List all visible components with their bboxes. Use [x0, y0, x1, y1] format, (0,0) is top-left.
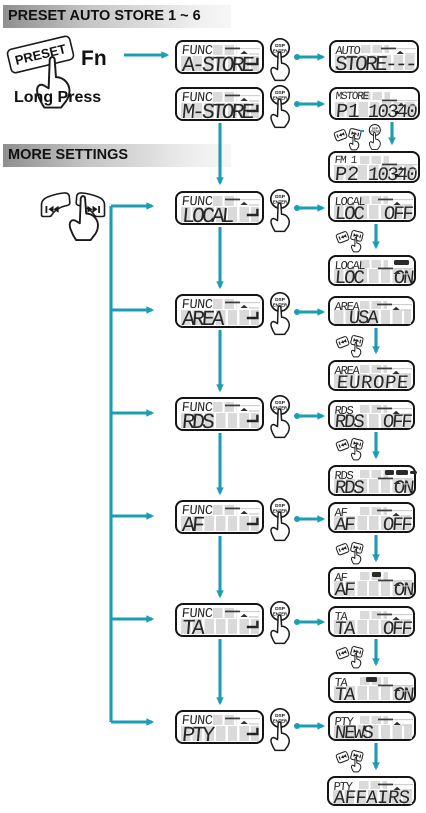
mini seek buttons hand (TA toggle)	[336, 646, 364, 668]
rail branch arrow to AF row	[111, 514, 152, 517]
rail branch arrow to LOCAL row	[111, 204, 152, 207]
dot arrow to right display (LOCAL row)	[294, 205, 300, 211]
mini seek buttons hand (AREA toggle)	[336, 335, 364, 357]
lcd FUNC AF	[175, 500, 264, 534]
DSP ENTER button hand for TA row	[271, 602, 289, 644]
DSP ENTER button hand for LOCAL row	[271, 190, 289, 232]
lcd AREA EUROPE	[328, 360, 415, 391]
DSP ENTER button hand for AREA row	[271, 293, 289, 335]
lcd AF AF ON	[328, 567, 416, 599]
rail branch arrow to AREA row	[111, 308, 152, 311]
arrow M-STORE to LOCAL	[218, 123, 221, 183]
lcd AUTO STORE	[329, 40, 419, 73]
mini seek buttons hand (PTY select)	[336, 750, 364, 772]
arrow LOC OFF to LOC ON	[374, 224, 377, 247]
arrow AF OFF to AF ON	[374, 535, 377, 560]
dot arrow to right display (M-STORE row)	[294, 101, 300, 107]
PRESET button with pressing hand	[7, 35, 75, 107]
arrow TA OFF to TA ON	[374, 639, 377, 664]
lcd PTY AFFAIRS	[327, 776, 416, 806]
lcd LOCAL LOC OFF	[328, 191, 416, 222]
rail branch arrow to RDS row	[111, 411, 152, 414]
dot arrow to right display (AREA row)	[294, 309, 300, 315]
mini seek buttons hand (RDS toggle)	[336, 438, 364, 460]
lcd AREA USA	[328, 296, 415, 326]
dot arrow to right display (RDS row)	[294, 413, 300, 419]
lcd FUNC AREA	[175, 294, 264, 328]
lcd FUNC TA	[175, 603, 264, 637]
lcd MSTORE P1 10340	[329, 87, 420, 120]
lcd LOCAL LOC ON	[328, 255, 416, 286]
mini DSP ENTER hand (store preset)	[360, 130, 364, 132]
DSP ENTER button hand for AF row	[271, 499, 289, 541]
arrow TA to PTY	[218, 639, 221, 703]
section header: PRESET AUTO STORE 1 ~ 6	[3, 5, 231, 28]
lcd TA TA OFF	[328, 606, 415, 637]
arrow PRESET to FUNC A-STORE	[124, 53, 167, 56]
lcd FUNC A-STORE	[175, 40, 264, 74]
arrow LOCAL to AREA	[218, 227, 221, 287]
DSP ENTER button hand for M-STORE row	[271, 86, 289, 128]
dot arrow to right display (TA row)	[294, 619, 300, 625]
dot arrow to right display (AF row)	[294, 516, 300, 522]
lcd FUNC PTY	[175, 710, 264, 744]
label Long Press	[14, 89, 101, 107]
lcd FUNC M-STORE	[175, 87, 264, 121]
arrow RDS to AF	[218, 433, 221, 493]
mini seek buttons hand (MSTORE adjust)	[334, 128, 362, 150]
mini seek buttons hand (AF toggle)	[336, 542, 364, 564]
dot arrow to right display (PTY row)	[294, 723, 300, 729]
rail branch arrow to TA row	[111, 617, 152, 620]
lcd RDS RDS OFF	[328, 400, 415, 430]
label Fn	[81, 47, 107, 71]
arrow NEWS to AFFAIRS	[374, 743, 377, 768]
left rail vertical line	[109, 206, 112, 722]
section header: MORE SETTINGS	[3, 144, 231, 167]
dot arrow to right display (A-STORE row)	[294, 54, 300, 60]
arrow USA to EUROPE	[374, 328, 377, 352]
seek buttons |<< >>| with pressing hand	[42, 193, 105, 240]
lcd FUNC RDS	[175, 397, 264, 431]
lcd RDS RDS ON	[328, 465, 416, 496]
lcd FM1 P2 10340	[328, 151, 420, 183]
lcd AF AF OFF	[328, 502, 415, 533]
lcd PTY NEWS	[328, 711, 416, 741]
mini seek buttons hand (LOCAL toggle)	[336, 230, 364, 252]
rail branch arrow to PTY row	[111, 720, 152, 723]
lcd TA TA ON	[328, 672, 416, 703]
arrow AREA to RDS	[218, 330, 221, 390]
arrow MSTORE to FM1 display	[390, 122, 393, 143]
arrow RDS OFF to RDS ON	[374, 432, 377, 457]
lcd FUNC LOCAL	[175, 191, 264, 225]
DSP ENTER button hand for A-STORE row	[271, 39, 289, 81]
DSP ENTER button hand for PTY row	[271, 709, 289, 751]
DSP ENTER button hand for RDS row	[271, 396, 289, 438]
arrow AF to TA	[218, 536, 221, 596]
